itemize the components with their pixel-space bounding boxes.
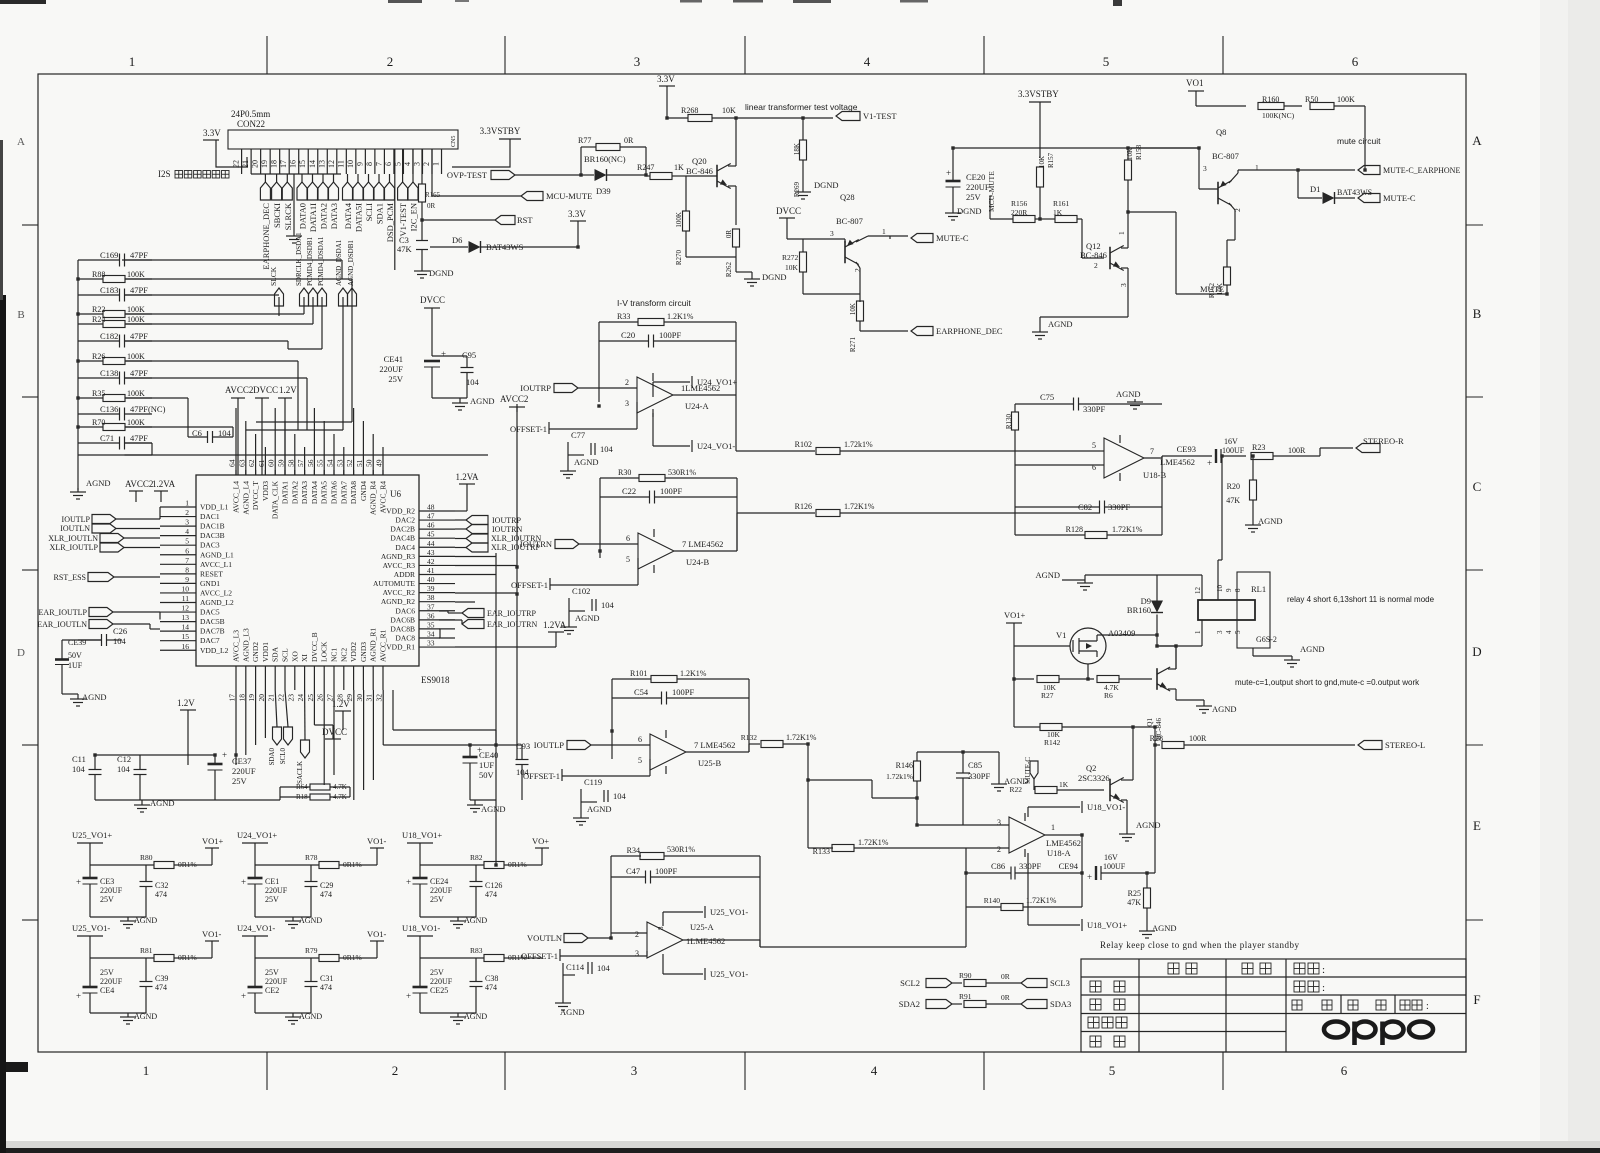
svg-text:DVCC: DVCC [420,295,445,305]
power flag VO1- [376,941,378,958]
svg-text:DGND: DGND [762,272,787,282]
svg-text:DVCC: DVCC [253,385,278,395]
ground AGND U25_VO1- [90,1012,146,1014]
wire relay pins [1201,575,1203,600]
svg-text:DATA1I: DATA1I [308,203,318,232]
junction dots [515,565,518,568]
wire R64 R18 join [279,787,281,800]
capacitor CE24 [413,877,428,880]
net flag STEREO-R [1356,444,1380,453]
svg-text:SCL0: SCL0 [279,748,287,765]
svg-text:44: 44 [427,539,435,548]
svg-text:0R: 0R [1001,972,1010,981]
svg-text:8: 8 [657,926,665,930]
svg-text:20: 20 [251,160,260,168]
wire U18-B feedback rails [1014,465,1016,535]
svg-text:0R: 0R [725,230,733,239]
svg-text:DATA5: DATA5 [320,481,329,504]
net flag U25_VO1- bottom [662,962,664,974]
svg-text:34: 34 [427,629,435,638]
net flag XLR_IOUTLN [100,534,124,543]
svg-text:U25-A: U25-A [690,922,714,932]
IC U6 ES9018 body [196,475,419,666]
ground AGND U24_VO1+ [255,916,311,918]
svg-text:41: 41 [427,566,435,575]
svg-text:DATA0: DATA0 [298,203,308,229]
svg-text:51: 51 [355,459,364,467]
svg-text:100K: 100K [127,418,145,427]
svg-text:104: 104 [113,636,127,646]
svg-text:21: 21 [267,694,276,702]
svg-text:DATA_CLK: DATA_CLK [271,480,280,519]
ground AGND U18_VO1- [420,1012,476,1014]
svg-text:R157: R157 [1047,152,1055,168]
svg-text:RL1: RL1 [1251,584,1266,594]
net flag U18_VO1+ [1027,853,1029,925]
svg-text:DGND: DGND [814,180,839,190]
svg-text:CE40: CE40 [479,750,498,760]
wire U25-A feedback rails [610,856,612,933]
svg-text:1: 1 [432,162,441,166]
svg-text:15: 15 [298,160,307,168]
svg-text:DATA2: DATA2 [290,481,299,504]
svg-text:AGND: AGND [86,478,111,488]
svg-text:104: 104 [601,600,615,610]
svg-text:U18-A: U18-A [1047,848,1071,858]
title label sheji [1090,981,1101,992]
ground AGND U24_VO1- [255,1012,311,1014]
svg-text:2: 2 [997,845,1001,854]
svg-text:22: 22 [232,160,241,168]
svg-text:AGND: AGND [1116,389,1141,399]
svg-text:R128: R128 [1066,525,1083,534]
svg-text:AGND: AGND [1300,644,1325,654]
svg-text:1.72k1%: 1.72k1% [844,440,873,449]
svg-text:DAC7B: DAC7B [200,627,225,636]
svg-text:Relay keep close to gnd when t: Relay keep close to gnd when the player … [1100,940,1299,950]
svg-text:R80: R80 [140,853,153,862]
wire CE20 rail junction [1128,147,1199,149]
svg-text:12: 12 [327,160,336,168]
svg-text:BC-807: BC-807 [836,216,863,226]
svg-text:AGND_L2: AGND_L2 [200,598,234,607]
wire U18-A output [1045,834,1082,836]
svg-text:1.72K1%: 1.72K1% [844,502,875,511]
svg-text:V1-TEST: V1-TEST [398,202,408,236]
svg-text:C47: C47 [626,866,640,876]
svg-text:R33: R33 [617,312,630,321]
svg-text:R23: R23 [1252,443,1265,452]
diode D39 [595,169,607,181]
svg-text:8: 8 [365,162,374,166]
svg-text:AVCC_R3: AVCC_R3 [383,561,416,570]
svg-text:+: + [946,168,951,178]
svg-text:AVCC_R4: AVCC_R4 [379,481,388,514]
svg-text:R165: R165 [425,191,441,199]
svg-text:AVCC2: AVCC2 [500,394,528,404]
resistor R20 [1250,480,1257,500]
svg-text:DATA7: DATA7 [339,481,348,504]
svg-text:IOUTRN: IOUTRN [492,525,522,534]
svg-text:R140: R140 [984,896,1001,905]
wire right pin stubs routing [455,556,496,558]
power flag VO1- [211,941,213,958]
svg-text:I2C_EN: I2C_EN [409,203,419,231]
svg-text:220UF: 220UF [379,364,403,374]
svg-text:47PF: 47PF [130,331,148,341]
wire Q8 emitter to R162 [1234,218,1236,240]
svg-text:U24_VO1-: U24_VO1- [697,441,735,451]
wire Q2 collector to Q1 [1133,726,1155,728]
svg-text:1LME4562: 1LME4562 [686,936,725,946]
svg-text:CE4: CE4 [100,986,114,995]
svg-text:GND3: GND3 [359,642,368,662]
svg-text::: : [1426,1001,1429,1012]
svg-text:100K(NC): 100K(NC) [1262,111,1295,120]
svg-text:474: 474 [155,890,167,899]
svg-text:18: 18 [237,694,246,702]
svg-text:DATA5I: DATA5I [354,203,364,232]
svg-text:3: 3 [1203,164,1207,173]
wire pin33 to 1.2VA [455,646,556,648]
wire top rail CE20 to Q8 [953,147,1199,149]
wire 3.3VSTBY to connector [452,139,510,167]
svg-text:Q1: Q1 [1146,718,1154,727]
svg-text:R27: R27 [1041,691,1054,700]
svg-text:25V: 25V [265,895,279,904]
svg-text:DAC3: DAC3 [200,541,220,550]
resistor R27 [1037,676,1059,683]
net flag PCMD4_DSDB1 [309,288,318,306]
wire feedback rails U24-B [599,478,601,558]
wire power bars down [237,398,239,475]
svg-text:CN5: CN5 [451,136,457,147]
wire R50 down to mute line [1364,106,1366,170]
svg-text:2: 2 [853,268,862,272]
svg-text:U18-B: U18-B [1143,470,1166,480]
power flag VO1- [376,848,378,865]
svg-text:5: 5 [1092,441,1096,450]
wire gate junction [1087,664,1089,679]
ground AGND U25_VO1+ [90,916,146,918]
wire mosfet to D9 node [1096,635,1098,641]
svg-text:R22: R22 [1009,785,1022,794]
svg-text:U25-B: U25-B [698,758,721,768]
svg-text:DATA1: DATA1 [281,481,290,504]
svg-text:MCU-MUTE: MCU-MUTE [546,191,592,201]
svg-text:R82: R82 [470,853,483,862]
wire IC bottom bus to CE40 [382,690,384,745]
svg-text:25V: 25V [100,895,114,904]
svg-text:+: + [1207,458,1212,468]
svg-text:VO1-: VO1- [367,836,387,846]
svg-text:55: 55 [316,459,325,467]
svg-text:16: 16 [289,160,298,168]
svg-text:C86: C86 [991,861,1005,871]
svg-text:MCU-MUTE: MCU-MUTE [987,171,996,212]
svg-text:DATA3: DATA3 [329,203,339,229]
svg-text:10K: 10K [1038,156,1046,168]
op-amp U24-A [637,377,673,413]
svg-text:8: 8 [1234,588,1242,592]
svg-text:+: + [222,750,227,760]
svg-text:AGND: AGND [1258,516,1283,526]
title block grid [1081,976,1466,978]
svg-text:C54: C54 [634,687,649,697]
svg-text:G6S-2: G6S-2 [1256,635,1277,644]
svg-text:GND2: GND2 [251,642,260,662]
svg-text:U25_VO1-: U25_VO1- [710,907,748,917]
capacitor CE40 [463,756,478,759]
resistor R25 [1144,888,1151,908]
svg-text:50V: 50V [68,651,82,660]
scan marks top [0,0,46,4]
svg-text:5: 5 [1234,630,1242,634]
svg-text:D: D [1472,644,1481,659]
svg-text:DATA6: DATA6 [330,481,339,504]
svg-text:DATA3: DATA3 [300,481,309,504]
svg-text:6: 6 [1352,54,1359,69]
wire U25-A out to R140 net [760,946,966,948]
svg-text:AGND: AGND [575,613,600,623]
svg-text:IOUTRP: IOUTRP [520,383,551,393]
svg-text:C39: C39 [155,974,168,983]
ground DGND under connector [293,174,295,232]
svg-text:64: 64 [228,459,237,467]
svg-text:AVCC_R2: AVCC_R2 [383,588,416,597]
svg-text:104: 104 [613,791,627,801]
svg-text:D: D [17,647,25,659]
svg-text:VDD_R2: VDD_R2 [386,507,415,516]
svg-text:530R1%: 530R1% [668,468,696,477]
svg-text:AGND_L1: AGND_L1 [200,550,234,559]
svg-text:U6: U6 [390,489,401,499]
svg-text:1: 1 [143,1063,150,1078]
wire U24-A input [599,387,637,389]
svg-text:1: 1 [129,54,136,69]
wire CE41 C95 bus [432,355,467,357]
svg-text:474: 474 [485,983,497,992]
svg-text:AGND_R3: AGND_R3 [381,552,415,561]
svg-text:62: 62 [247,459,256,467]
power flag VO1+ [211,848,213,865]
svg-text:OVP-TEST: OVP-TEST [447,170,488,180]
svg-text:11: 11 [336,160,345,168]
svg-text:AGND: AGND [1048,319,1073,329]
svg-text:D39: D39 [596,186,611,196]
svg-text:21: 21 [241,160,250,168]
svg-text:+: + [406,877,411,887]
svg-text:R262: R262 [725,262,733,278]
net flag EAR_IOUTRP [462,609,484,618]
svg-text:1.2VA: 1.2VA [543,620,567,630]
svg-text:C114: C114 [566,962,585,972]
title label riqi [1242,963,1253,974]
svg-text:25V: 25V [966,192,982,202]
wire feedback rails U25-B [611,679,613,759]
svg-text:8: 8 [185,565,189,574]
svg-text:GND1: GND1 [200,579,220,588]
net flag MUTE-C_EARPHONE [1358,166,1380,175]
svg-text:MUTE-C: MUTE-C [1383,193,1416,203]
svg-text:U24-B: U24-B [686,557,709,567]
svg-text:1: 1 [1255,163,1259,172]
svg-text:VOUTLN: VOUTLN [527,933,562,943]
svg-text:1K: 1K [1059,780,1069,789]
svg-text:530R1%: 530R1% [667,845,695,854]
svg-text:DAC8B: DAC8B [390,624,415,633]
svg-text:EAR_IOUTRP: EAR_IOUTRP [487,609,536,618]
svg-text:1UF: 1UF [68,661,83,670]
svg-text:3: 3 [997,818,1001,827]
svg-text:XO: XO [290,651,299,662]
svg-text:220UF: 220UF [265,886,288,895]
svg-text:XLR_IOUTLP: XLR_IOUTLP [50,543,99,552]
wire R132 to R133 [807,744,809,848]
svg-text:330PF: 330PF [1019,861,1041,871]
svg-text:1.2V: 1.2V [332,699,350,709]
wire U24-B rail to R126 [736,513,738,551]
svg-text:EARPHONE_DEC: EARPHONE_DEC [936,326,1003,336]
svg-text:VDD_R1: VDD_R1 [386,643,415,652]
svg-text:100R: 100R [1288,446,1306,455]
svg-text:3: 3 [631,1063,638,1078]
svg-text:R77: R77 [578,136,591,145]
svg-text:R146: R146 [896,761,913,770]
wire long bottom row to IC [125,454,489,456]
svg-text:6: 6 [384,162,393,166]
svg-text:R130: R130 [1005,414,1013,430]
svg-text:DAC7: DAC7 [200,636,220,645]
svg-text:220UF: 220UF [430,886,453,895]
svg-text:V1: V1 [1056,630,1066,640]
svg-text:C93: C93 [516,741,530,751]
svg-text:24P0.5mm: 24P0.5mm [231,109,270,119]
svg-text:RESET: RESET [200,569,223,578]
svg-text:SCLI: SCLI [364,203,374,222]
svg-text:50: 50 [365,459,374,467]
svg-text:10K: 10K [785,263,799,272]
svg-text:mute-c=1,output short to gnd,m: mute-c=1,output short to gnd,mute-c =0.o… [1235,678,1420,687]
net flags I2S signals [260,182,270,200]
svg-text:AVCC2: AVCC2 [125,479,153,489]
svg-text:5: 5 [185,537,189,546]
svg-text:AGND: AGND [299,1012,322,1021]
svg-text:25V: 25V [100,968,114,977]
svg-text:4: 4 [403,162,412,166]
wire Q28 collector to MUTE-C [856,236,868,242]
svg-text:4: 4 [871,1063,878,1078]
net flag XLR_IOUTRN [466,534,488,543]
label I2S input chinese [175,171,183,179]
svg-text:15: 15 [182,632,190,641]
net flag RST_ESS [88,573,114,582]
wire U25-A input pin2 [611,932,647,934]
scan mark bottom left corner [0,1062,28,1072]
wire bottom pins to gnd bus [235,690,237,765]
svg-text:Q8: Q8 [1216,127,1226,137]
resistor R6 [1097,676,1119,683]
svg-text:R272: R272 [782,253,799,262]
svg-text:+: + [1087,872,1092,882]
svg-text:AGND: AGND [470,396,495,406]
svg-text:C20: C20 [621,330,635,340]
svg-text:17: 17 [228,694,237,702]
svg-text:2: 2 [635,930,639,939]
svg-text:22: 22 [277,694,286,702]
capacitor CE1 [248,877,263,880]
title label banci [1400,1000,1410,1010]
svg-text:OFFSET-1: OFFSET-1 [511,580,548,590]
svg-text:1.72K1%: 1.72K1% [858,838,889,847]
svg-text:+: + [241,877,246,887]
svg-text:CE20: CE20 [966,172,985,182]
wire stereoL vertical [1175,646,1177,669]
svg-text:3.3V: 3.3V [657,74,675,84]
title block outer [1081,959,1466,1052]
svg-text:104: 104 [117,764,131,774]
net flag IOUTLP [92,515,116,524]
svg-text:NC2: NC2 [339,648,348,662]
svg-text:3.3V: 3.3V [203,128,221,138]
svg-text:MUTE-C: MUTE-C [936,233,969,243]
net flag SDRCLK_DSDA1 [300,288,309,306]
svg-text:R126: R126 [795,502,812,511]
net flag EAR_IOUTRN [462,620,484,629]
svg-text:1.2VA: 1.2VA [455,472,479,482]
svg-text:330PF: 330PF [1083,404,1105,414]
svg-text:OFFSET-1: OFFSET-1 [523,771,560,781]
relay coil box [1198,600,1255,620]
svg-text:58: 58 [286,459,295,467]
svg-text:16V: 16V [1104,853,1118,862]
svg-text:100PF: 100PF [655,866,677,876]
svg-text:DATA8: DATA8 [349,481,358,504]
svg-text:AVCC_L2: AVCC_L2 [200,588,232,597]
svg-text:EAR_IOUTLP: EAR_IOUTLP [39,608,88,617]
net flag EAR_IOUTLP [89,608,113,617]
svg-text:XLR_IOUTLN: XLR_IOUTLN [48,534,98,543]
svg-text:DVCC: DVCC [776,206,801,216]
svg-text:VO1+: VO1+ [202,836,224,846]
svg-text:5: 5 [626,555,630,564]
net flag IOUTRN [555,540,579,549]
op-amp U25-A [647,922,683,958]
svg-text:1: 1 [1051,823,1055,832]
title label banhao [1294,981,1305,992]
svg-text:39: 39 [427,584,435,593]
svg-text:100R: 100R [1189,734,1207,743]
svg-text:100K: 100K [127,389,145,398]
svg-text:AGND: AGND [134,1012,157,1021]
svg-text:61: 61 [257,459,266,467]
svg-text:R102: R102 [795,440,812,449]
svg-text:C22: C22 [622,486,636,496]
svg-text:18: 18 [270,160,279,168]
svg-text:9: 9 [185,575,189,584]
svg-text:AGND: AGND [464,916,487,925]
svg-text:IOUTLP: IOUTLP [534,740,564,750]
svg-text:R142: R142 [1044,738,1061,747]
svg-text:R156: R156 [1011,199,1028,208]
net flag IOUTLN [92,524,116,533]
svg-text:CE3: CE3 [100,877,114,886]
svg-text::: : [1322,982,1325,994]
svg-text:100K: 100K [127,315,145,324]
svg-text:25V: 25V [430,968,444,977]
wire CE40 C93 bus [470,744,522,746]
connector CON22 body [228,130,458,149]
